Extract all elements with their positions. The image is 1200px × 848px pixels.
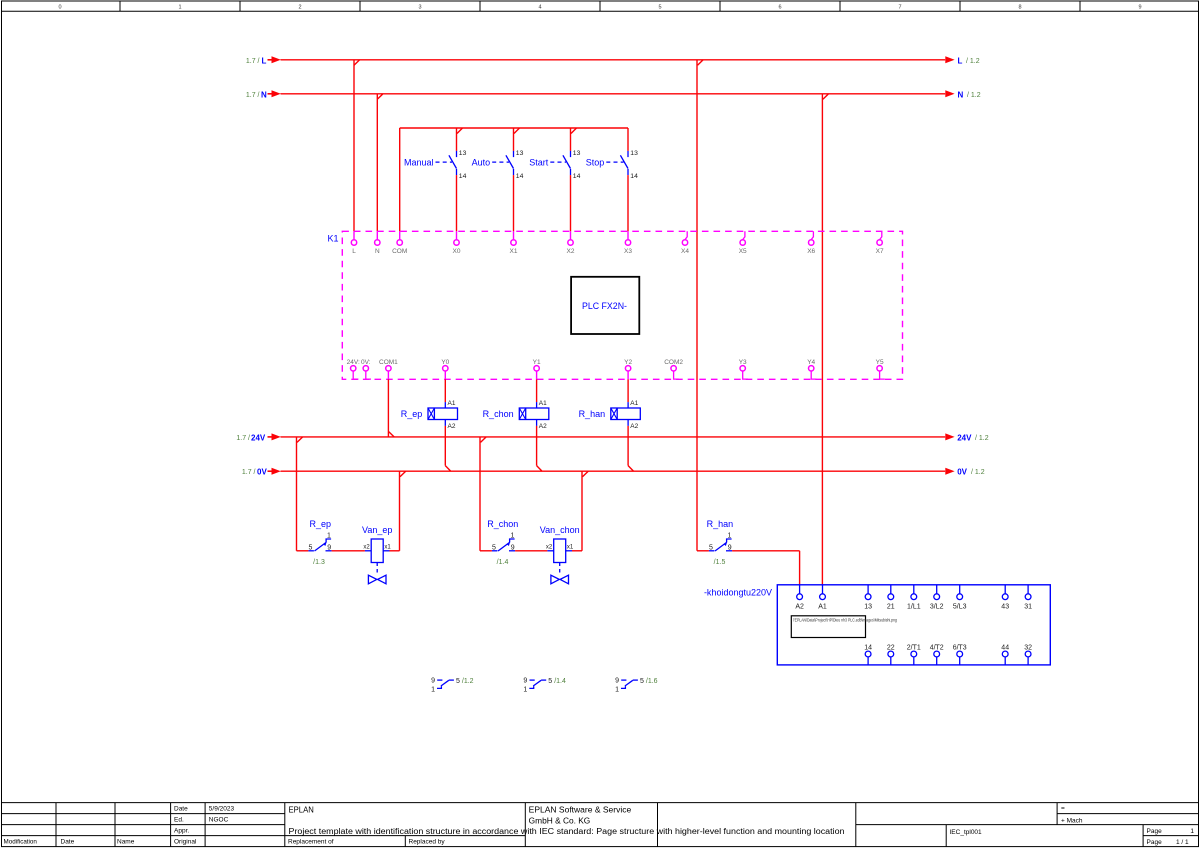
svg-text:GmbH & Co. KG: GmbH & Co. KG — [529, 817, 591, 826]
svg-text:5: 5 — [548, 678, 552, 685]
svg-text:Replaced by: Replaced by — [409, 838, 446, 845]
svg-text:1.7 /: 1.7 / — [242, 469, 256, 476]
wire contactor A1 feed from N — [821, 94, 823, 585]
K1 terminal Y3 (unconnected) — [739, 359, 748, 379]
K1 terminal L — [351, 231, 356, 255]
cross-reference contact R_han /1.6 (9/1/5) — [615, 678, 658, 694]
svg-text:/1.4: /1.4 — [497, 559, 509, 566]
source arrow L (1.7 / L) — [246, 56, 281, 65]
svg-text:/'EPLAN/Data\Project\HP\Dieu n: /'EPLAN/Data\Project\HP\Dieu nh3 PLC.edb… — [793, 618, 897, 623]
svg-text:1: 1 — [511, 533, 515, 540]
contactor terminal 14 — [864, 645, 872, 665]
svg-text:Date: Date — [174, 805, 188, 812]
svg-text:14: 14 — [573, 173, 581, 180]
pushbutton S Stop (13/14) — [586, 128, 638, 231]
svg-text:X1: X1 — [510, 248, 518, 255]
svg-text:Manual: Manual — [404, 157, 434, 167]
svg-text:2: 2 — [298, 5, 301, 11]
svg-text:1: 1 — [327, 533, 331, 540]
svg-text:-khoidongtu220V: -khoidongtu220V — [704, 588, 772, 598]
svg-text:Project template with identifi: Project template with identification str… — [289, 827, 845, 836]
K1 terminal Y5 (unconnected) — [876, 359, 885, 379]
svg-text:A1: A1 — [818, 603, 827, 610]
svg-text:R_han: R_han — [707, 519, 734, 529]
svg-text:X4: X4 — [681, 248, 689, 255]
contactor terminal 2/T1 — [907, 645, 921, 665]
svg-text:9: 9 — [728, 544, 732, 551]
svg-text:/1.3: /1.3 — [313, 559, 325, 566]
svg-text:X7: X7 — [876, 248, 884, 255]
svg-text:N: N — [261, 90, 267, 99]
svg-text:Page: Page — [1147, 839, 1163, 846]
K1 terminal X3 — [624, 231, 632, 255]
svg-text:1.7 /: 1.7 / — [246, 58, 260, 65]
svg-text:R_ep: R_ep — [310, 519, 332, 529]
K1 terminal X5 (unconnected) — [739, 231, 747, 255]
K1 terminal Y0 — [441, 359, 449, 379]
svg-text:/1.4: /1.4 — [554, 678, 566, 685]
wire L rail — [281, 59, 946, 61]
svg-text:IEC_tpl001: IEC_tpl001 — [950, 829, 983, 836]
svg-text:COM: COM — [392, 248, 407, 255]
svg-text:1 / 1: 1 / 1 — [1176, 839, 1189, 846]
svg-text:7: 7 — [898, 5, 901, 11]
svg-text:/ 1.2: / 1.2 — [967, 92, 981, 99]
svg-text:K1: K1 — [327, 234, 338, 244]
svg-text:R_han: R_han — [579, 409, 606, 419]
wire 24V drop to R_ep rung — [296, 437, 298, 551]
svg-text:1.7 /: 1.7 / — [236, 435, 250, 442]
wire L drop to K1 terminal L — [353, 60, 355, 232]
junction tick rail at x=570.5 — [571, 128, 577, 134]
K1 terminal X4 (unconnected) — [681, 231, 689, 255]
wire N rail — [281, 93, 946, 95]
svg-text:9: 9 — [523, 678, 527, 685]
solenoid valve coil Van_ep (x2/x1) — [362, 525, 392, 584]
svg-text:L: L — [958, 56, 963, 65]
svg-text:6: 6 — [778, 5, 781, 11]
contactor -khoidongtu220V enclosure — [704, 585, 1050, 665]
pushbutton S Start (13/14) — [529, 128, 580, 231]
relay coil R_ep (A1/A2) — [401, 379, 458, 471]
wire R_ep contact to Van_ep — [332, 550, 365, 552]
target arrow N (N / 1.2) — [945, 90, 980, 99]
contactor terminal 3/L2 — [930, 585, 944, 610]
solenoid valve coil Van_chon (x2/x1) — [540, 525, 580, 584]
svg-text:=: = — [1061, 805, 1065, 812]
svg-text:31: 31 — [1024, 603, 1032, 610]
svg-text:Page: Page — [1147, 828, 1163, 835]
K1 terminal X0 — [453, 231, 461, 255]
svg-text:NGOC: NGOC — [209, 816, 229, 823]
wire R_chon contact to Van_chon — [515, 550, 547, 552]
svg-text:x1: x1 — [567, 545, 574, 551]
svg-text:13: 13 — [459, 150, 467, 157]
K1 terminal Y4 (unconnected) — [807, 359, 816, 379]
wire button common rail — [400, 128, 628, 231]
svg-text:X5: X5 — [739, 248, 747, 255]
relay coil R_han (A1/A2) — [579, 379, 641, 471]
svg-text:/ 1.2: / 1.2 — [966, 58, 980, 65]
contactor terminal A2 — [795, 585, 804, 610]
K1 terminal COM1 — [379, 359, 398, 379]
svg-text:A2: A2 — [448, 423, 456, 430]
svg-text:24V:: 24V: — [347, 359, 360, 366]
svg-text:13: 13 — [573, 150, 581, 157]
svg-text:/1.2: /1.2 — [462, 678, 474, 685]
K1 terminal Y2 — [624, 359, 632, 379]
svg-text:14: 14 — [459, 173, 467, 180]
wire 24V drop to R_chon rung — [479, 437, 481, 551]
svg-text:Appr.: Appr. — [174, 827, 189, 834]
svg-text:/1.6: /1.6 — [646, 678, 658, 685]
svg-text:/ 1.2: / 1.2 — [971, 469, 985, 476]
svg-text:5/L3: 5/L3 — [953, 603, 967, 610]
svg-text:COM1: COM1 — [379, 359, 398, 366]
junction tick L to PLC terminal L — [354, 60, 360, 66]
svg-text:44: 44 — [1001, 645, 1009, 652]
K1 terminal X6 (unconnected) — [807, 231, 815, 255]
svg-text:9: 9 — [1138, 5, 1141, 11]
svg-text:N: N — [375, 248, 380, 255]
svg-text:Ed.: Ed. — [174, 816, 184, 823]
svg-text:Stop: Stop — [586, 157, 605, 167]
svg-text:Replacement of: Replacement of — [288, 838, 334, 845]
svg-text:0: 0 — [58, 5, 61, 11]
contact R_chon (5/9/1) /1.4 — [480, 519, 518, 566]
svg-text:Y0: Y0 — [441, 359, 449, 366]
svg-text:1: 1 — [1190, 828, 1194, 835]
wire R_han contact to contactor A2 — [732, 551, 800, 585]
svg-text:A2: A2 — [539, 423, 547, 430]
pushbutton S Auto (13/14) — [472, 128, 524, 231]
contactor terminal 31 — [1024, 585, 1032, 610]
svg-text:1: 1 — [431, 686, 435, 693]
junction tick N to contactor A1 — [823, 94, 829, 100]
svg-text:L: L — [262, 56, 267, 65]
svg-text:COM2: COM2 — [664, 359, 683, 366]
contactor terminal 13 — [864, 585, 872, 610]
svg-text:Y5: Y5 — [876, 359, 884, 366]
svg-text:43: 43 — [1001, 603, 1009, 610]
K1 terminal X7 (unconnected) — [876, 231, 884, 255]
svg-text:0V: 0V — [957, 468, 967, 477]
target arrow L (L / 1.2) — [945, 56, 979, 65]
svg-text:R_chon: R_chon — [487, 519, 518, 529]
wire contactor feed from L down to R_han contact — [696, 60, 698, 551]
svg-text:Van_chon: Van_chon — [540, 525, 580, 535]
svg-text:/ 1.2: / 1.2 — [975, 435, 989, 442]
junction tick rail at x=513.5 — [514, 128, 520, 134]
svg-text:14: 14 — [630, 173, 638, 180]
wire Van_ep to 0V return — [390, 471, 400, 551]
svg-text:13: 13 — [516, 150, 524, 157]
svg-text:14: 14 — [516, 173, 524, 180]
svg-text:9: 9 — [615, 678, 619, 685]
svg-text:A1: A1 — [448, 400, 456, 407]
contactor terminal 22 — [887, 645, 895, 665]
svg-text:32: 32 — [1024, 645, 1032, 652]
junction tick 24V to R_ep rung — [297, 437, 303, 443]
svg-text:A1: A1 — [539, 400, 547, 407]
cross-reference contact R_ep /1.2 (9/1/5) — [431, 678, 474, 694]
svg-text:Modification: Modification — [4, 838, 38, 845]
svg-text:5/9/2023: 5/9/2023 — [209, 805, 235, 812]
svg-text:EPLAN Software & Service: EPLAN Software & Service — [529, 806, 632, 815]
svg-text:Name: Name — [117, 838, 135, 845]
wire 24V rail — [281, 436, 946, 438]
contact R_han (5/9/1) /1.5 — [697, 519, 733, 566]
svg-text:21: 21 — [887, 603, 895, 610]
K1 terminal 24V: (unconnected) — [347, 359, 360, 379]
contactor terminal 44 — [1001, 645, 1009, 665]
svg-text:0V: 0V — [257, 468, 267, 477]
junction tick rail at x=456.5 — [457, 128, 463, 134]
svg-text:1: 1 — [178, 5, 181, 11]
svg-text:x1: x1 — [384, 545, 391, 551]
svg-text:1: 1 — [523, 686, 527, 693]
svg-text:1.7 /: 1.7 / — [246, 92, 260, 99]
junction tick 24V to R_chon rung — [481, 437, 487, 443]
svg-text:A2: A2 — [795, 603, 804, 610]
svg-text:Original: Original — [174, 838, 197, 845]
svg-text:1: 1 — [728, 533, 732, 540]
source arrow 24V (1.7 / 24V) — [236, 433, 280, 442]
svg-text:X2: X2 — [567, 248, 575, 255]
svg-text:L: L — [352, 248, 356, 255]
svg-text:Y4: Y4 — [807, 359, 815, 366]
svg-text:3: 3 — [418, 5, 421, 11]
svg-text:13: 13 — [864, 603, 872, 610]
wire 0V rail — [281, 470, 946, 472]
K1 terminal Y1 — [533, 359, 541, 379]
svg-text:X6: X6 — [807, 248, 815, 255]
pushbutton S Manual (13/14) — [404, 128, 467, 231]
PLC K1 dashed enclosure — [327, 231, 902, 379]
contactor terminal 6/T3 — [953, 645, 967, 665]
svg-text:24V: 24V — [251, 433, 266, 442]
svg-text:N: N — [958, 90, 964, 99]
svg-text:PLC FX2N-: PLC FX2N- — [582, 301, 627, 311]
contactor terminal 1/L1 — [907, 585, 921, 610]
svg-text:1/L1: 1/L1 — [907, 603, 921, 610]
contactor terminal 5/L3 — [953, 585, 967, 610]
svg-text:4: 4 — [538, 5, 541, 11]
K1 terminal X2 — [567, 231, 575, 255]
target arrow 0V (0V / 1.2) — [945, 468, 984, 477]
svg-text:24V: 24V — [957, 433, 972, 442]
svg-text:Start: Start — [529, 157, 549, 167]
svg-text:R_ep: R_ep — [401, 409, 423, 419]
junction tick R_ep rung return to 0V — [400, 471, 406, 477]
svg-text:22: 22 — [887, 645, 895, 652]
svg-text:5: 5 — [709, 544, 713, 551]
contactor terminal 4/T2 — [930, 645, 944, 665]
svg-text:13: 13 — [630, 150, 638, 157]
svg-text:9: 9 — [327, 544, 331, 551]
svg-text:8: 8 — [1018, 5, 1021, 11]
svg-text:9: 9 — [431, 678, 435, 685]
svg-text:4/T2: 4/T2 — [930, 645, 944, 652]
svg-text:x2: x2 — [363, 545, 370, 551]
junction tick N to PLC terminal N — [377, 94, 383, 100]
svg-text:+ Mach: + Mach — [1061, 817, 1083, 824]
svg-text:9: 9 — [511, 544, 515, 551]
source arrow N (1.7 / N) — [246, 90, 281, 99]
junction tick COM1 to 24V — [388, 431, 394, 437]
svg-text:Y3: Y3 — [739, 359, 747, 366]
wire N drop to K1 terminal N — [376, 94, 378, 232]
contactor terminal 21 — [887, 585, 895, 610]
junction tick R_chon rung return to 0V — [583, 471, 589, 477]
svg-text:6/T3: 6/T3 — [953, 645, 967, 652]
svg-text:EPLAN: EPLAN — [289, 806, 315, 815]
junction tick L to contactor feed — [698, 60, 704, 66]
svg-text:X3: X3 — [624, 248, 632, 255]
PLC FX2N- CPU box — [571, 277, 639, 334]
contactor terminal A1 — [818, 585, 827, 610]
source arrow 0V (1.7 / 0V) — [242, 468, 281, 477]
svg-text:5: 5 — [640, 678, 644, 685]
svg-text:Y1: Y1 — [533, 359, 541, 366]
svg-text:Auto: Auto — [472, 157, 491, 167]
svg-text:A2: A2 — [630, 423, 638, 430]
svg-text:1: 1 — [615, 686, 619, 693]
svg-text:3/L2: 3/L2 — [930, 603, 944, 610]
wire COM1 to 24V rail — [387, 379, 389, 437]
svg-text:Date: Date — [61, 838, 75, 845]
K1 terminal COM2 (unconnected) — [664, 359, 683, 379]
svg-text:2/T1: 2/T1 — [907, 645, 921, 652]
svg-text:5: 5 — [492, 544, 496, 551]
svg-text:x2: x2 — [546, 545, 553, 551]
contactor image placeholder box — [791, 616, 897, 638]
svg-text:/1.5: /1.5 — [714, 559, 726, 566]
target arrow 24V (24V / 1.2) — [945, 433, 988, 442]
K1 terminal 0V: (unconnected) — [361, 359, 371, 379]
svg-text:A1: A1 — [630, 400, 638, 407]
contactor terminal 32 — [1024, 645, 1032, 665]
K1 terminal X1 — [510, 231, 518, 255]
K1 terminal COM — [392, 231, 407, 255]
svg-text:5: 5 — [456, 678, 460, 685]
K1 terminal N — [375, 231, 380, 255]
svg-text:R_chon: R_chon — [483, 409, 514, 419]
svg-text:X0: X0 — [453, 248, 461, 255]
contactor terminal 43 — [1001, 585, 1009, 610]
relay coil R_chon (A1/A2) — [483, 379, 549, 471]
svg-text:5: 5 — [658, 5, 661, 11]
svg-text:Y2: Y2 — [624, 359, 632, 366]
contact R_ep (5/9/1) /1.3 — [297, 519, 332, 566]
svg-text:0V:: 0V: — [361, 359, 371, 366]
cross-reference contact R_chon /1.4 (9/1/5) — [523, 678, 566, 694]
wire Van_chon to 0V return — [572, 471, 582, 551]
svg-text:5: 5 — [308, 544, 312, 551]
svg-text:14: 14 — [864, 645, 872, 652]
svg-text:Van_ep: Van_ep — [362, 525, 392, 535]
